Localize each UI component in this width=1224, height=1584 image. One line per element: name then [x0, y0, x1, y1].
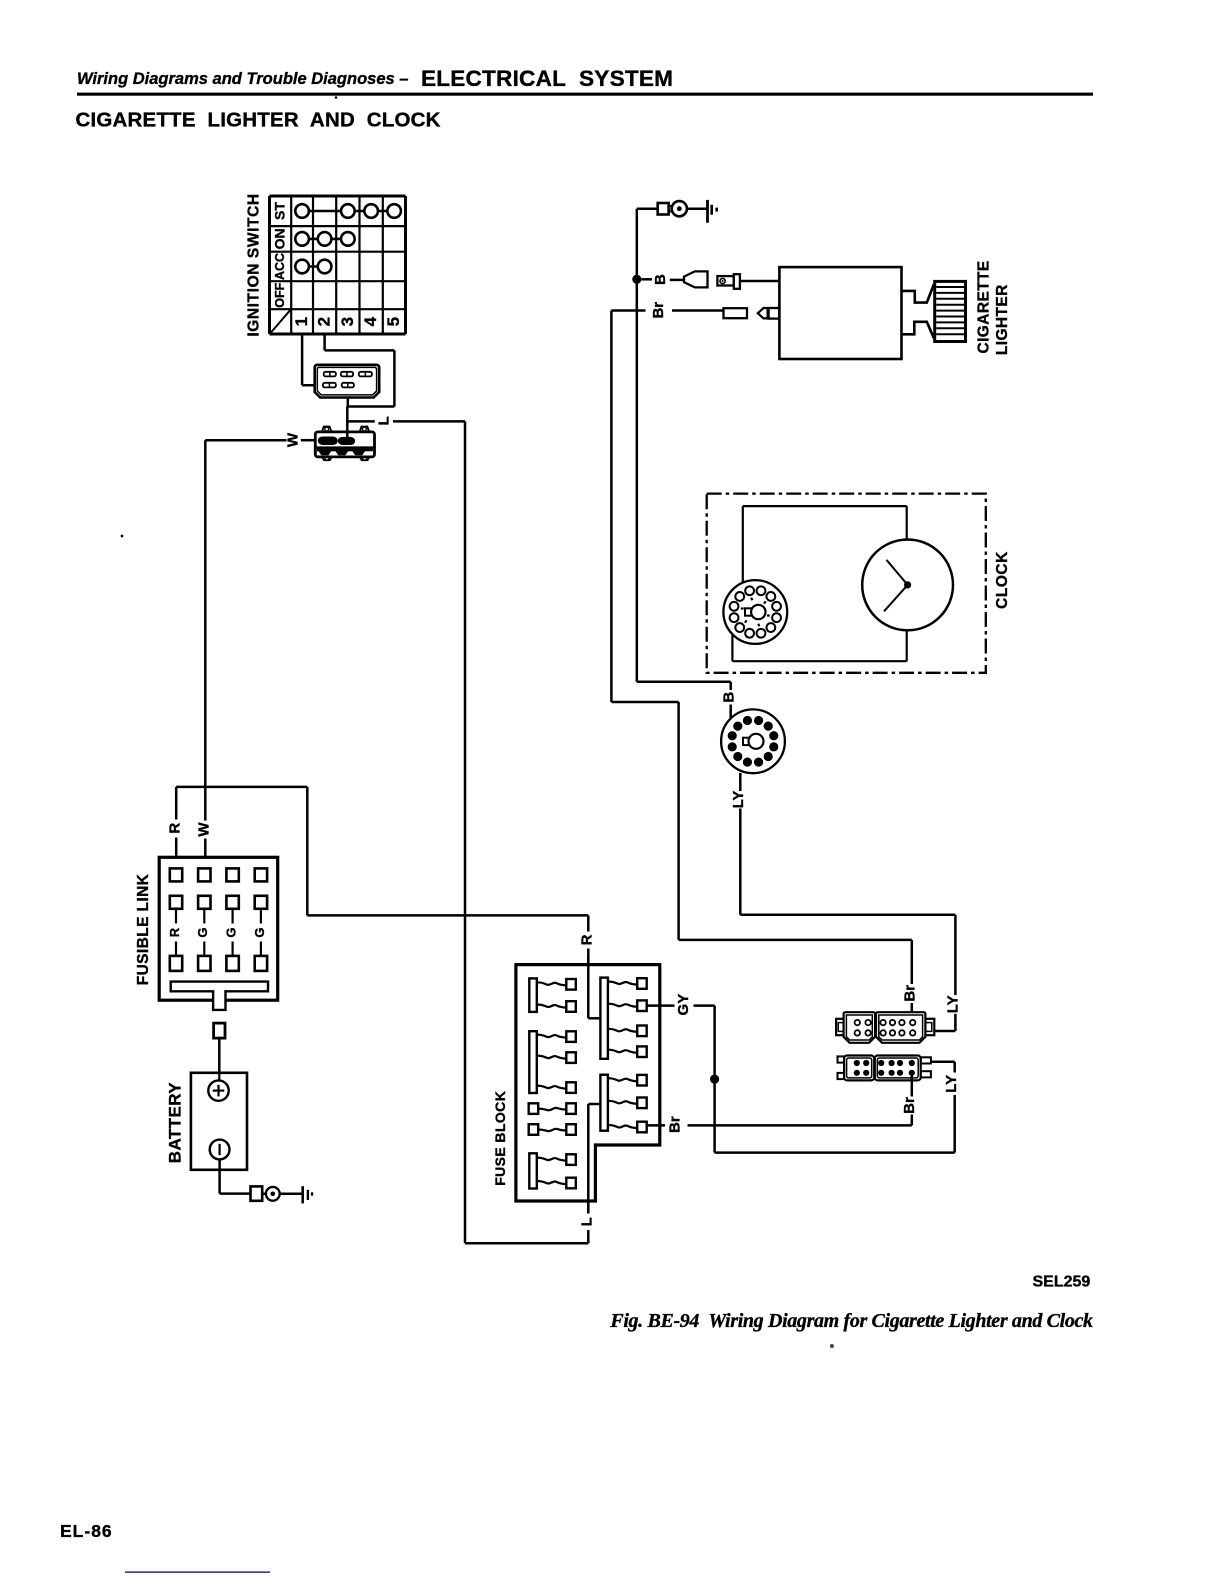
svg-text:B: B [652, 274, 669, 285]
svg-text:Wiring Diagrams and Trouble Di: Wiring Diagrams and Trouble Diagnoses – [77, 70, 408, 88]
svg-text:2: 2 [315, 317, 334, 326]
svg-text:FUSE BLOCK: FUSE BLOCK [492, 1091, 508, 1186]
svg-text:G: G [195, 927, 210, 937]
svg-text:ELECTRICAL SYSTEM: ELECTRICAL SYSTEM [421, 66, 673, 91]
svg-text:4: 4 [361, 316, 380, 326]
svg-text:ACC: ACC [273, 253, 287, 280]
svg-text:Br: Br [901, 1097, 918, 1114]
svg-text:W: W [285, 432, 302, 447]
svg-text:CIGARETTE LIGHTER AND CLOCK: CIGARETTE LIGHTER AND CLOCK [76, 109, 441, 132]
svg-text:Fig. BE-94 Wiring Diagram for: Fig. BE-94 Wiring Diagram for Cigarette … [609, 1310, 1093, 1332]
svg-text:GY: GY [675, 994, 692, 1016]
svg-text:Br: Br [666, 1116, 683, 1133]
svg-text:B: B [720, 692, 737, 703]
svg-text:R: R [578, 934, 595, 945]
svg-text:LY: LY [730, 791, 747, 809]
svg-text:LIGHTER: LIGHTER [994, 284, 1011, 355]
svg-text:Br: Br [901, 985, 918, 1002]
svg-text:R: R [166, 823, 183, 834]
svg-text:W: W [195, 822, 212, 837]
svg-text:Br: Br [650, 302, 667, 319]
svg-text:EL-86: EL-86 [60, 1521, 113, 1541]
svg-text:3: 3 [338, 317, 357, 326]
svg-text:SEL259: SEL259 [1033, 1274, 1091, 1291]
svg-text:CLOCK: CLOCK [994, 551, 1011, 609]
svg-text:G: G [224, 927, 239, 937]
svg-text:ST: ST [271, 202, 287, 220]
svg-text:L: L [375, 416, 392, 425]
svg-text:OFF: OFF [273, 282, 287, 307]
svg-text:L: L [578, 1217, 595, 1226]
svg-text:LY: LY [944, 995, 961, 1013]
svg-text:ON: ON [271, 228, 287, 249]
svg-text:IGNITION SWITCH: IGNITION SWITCH [246, 193, 263, 336]
svg-text:R: R [167, 927, 182, 937]
svg-text:FUSIBLE LINK: FUSIBLE LINK [135, 873, 152, 985]
svg-text:LY: LY [943, 1075, 960, 1093]
svg-text:BATTERY: BATTERY [165, 1082, 184, 1163]
svg-text:1: 1 [292, 317, 311, 326]
svg-text:5: 5 [384, 317, 403, 326]
svg-text:CIGARETTE: CIGARETTE [975, 260, 992, 353]
svg-text:G: G [252, 927, 267, 937]
